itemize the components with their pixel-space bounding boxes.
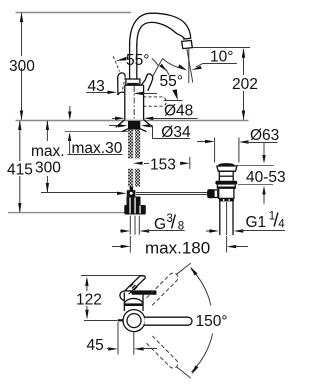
svg-text:300: 300	[35, 160, 61, 177]
svg-text:G1: G1	[246, 214, 267, 231]
drain centerline	[226, 202, 228, 235]
lever pivot bar (dark)	[132, 290, 157, 294]
base escutcheon wedges with hatch	[116, 120, 153, 132]
svg-text:max.: max.	[31, 143, 65, 160]
svg-text:4: 4	[278, 219, 285, 231]
svg-text:Ø48: Ø48	[164, 103, 193, 120]
supply tails	[130, 216, 139, 235]
svg-text:202: 202	[232, 76, 258, 93]
pop-up rod extension line with leader arrow	[41, 192, 127, 195]
svg-text:415: 415	[7, 162, 33, 179]
bottom reference line (hose end level)	[8, 212, 125, 214]
svg-text:Ø63: Ø63	[250, 127, 279, 144]
neck	[218, 171, 220, 181]
dashed lever capsule (down position)	[143, 97, 166, 106]
lever axis extension line	[153, 58, 163, 76]
svg-text:55°: 55°	[126, 52, 149, 69]
top reference line (spout top level)	[16, 12, 132, 14]
threaded shank upper section	[128, 121, 140, 159]
svg-text:40-53: 40-53	[246, 169, 286, 186]
body centerline	[133, 86, 135, 119]
pop-up rod joint at shank	[127, 187, 136, 201]
cartridge cap under lever	[126, 79, 140, 85]
svg-text:Ø34: Ø34	[161, 124, 191, 141]
dashed rotated lever position line	[113, 56, 119, 71]
angle 55° first label (lever angle)	[116, 52, 169, 75]
spout arm capsule (solid)	[145, 317, 193, 325]
svg-text:G: G	[154, 216, 166, 233]
spout riser pipe	[130, 44, 137, 80]
dimension Ø48 (body diameter)	[112, 103, 198, 121]
lever capsule left (teardrop, partly dashed)	[118, 73, 126, 95]
angle 55° second label (spout swivel)	[160, 59, 188, 101]
aerator block at spout outlet	[182, 38, 193, 48]
pop-up horizontal rod	[136, 193, 208, 195]
lower axis extension	[177, 367, 191, 378]
svg-text:max.180: max.180	[145, 239, 210, 258]
water stream vertical reference	[188, 49, 190, 83]
locknut	[219, 199, 234, 202]
faucet body	[125, 85, 144, 120]
countertop line	[16, 120, 249, 122]
lower body	[219, 188, 234, 198]
svg-text:max.30: max.30	[72, 140, 123, 157]
dimension 43 (lever front to center)	[86, 78, 157, 95]
dimension max.180	[112, 236, 248, 258]
dimension G1 1/4 (drain thread)	[206, 210, 285, 232]
base circle (plan)	[123, 310, 145, 332]
spout axis extension line	[84, 320, 118, 322]
svg-text:122: 122	[76, 292, 102, 309]
lever tip mark on spout axis	[118, 319, 124, 321]
drain assembly	[207, 163, 237, 235]
dimension 45	[87, 322, 158, 355]
svg-text:8: 8	[178, 221, 184, 233]
svg-text:153: 153	[150, 157, 176, 174]
tailpipe	[219, 201, 221, 235]
water stream 10° slanted line	[187, 49, 193, 83]
svg-text:150°: 150°	[196, 313, 228, 330]
lever capsule right (solid hook)	[141, 74, 153, 91]
dimension max.300 (rod depth)	[31, 120, 65, 193]
supply hose nuts (bottom black block)	[124, 197, 146, 215]
dimension G3/8 (supply thread)	[120, 212, 185, 233]
dimension max.30 (deck thickness)	[65, 106, 128, 157]
dimension Ø34 (hole diameter)	[109, 124, 191, 141]
svg-text:300: 300	[9, 58, 35, 75]
svg-text:10°: 10°	[210, 49, 233, 66]
dimension 300 (left, above counter)	[9, 12, 35, 120]
dimension 153 (spout reach)	[133, 157, 190, 174]
threaded shank lower section	[128, 169, 140, 187]
dimension 415 (left, below counter)	[7, 120, 33, 213]
dimension 202 (spout outlet height)	[191, 48, 258, 121]
flange rim	[217, 166, 237, 171]
angle 10° label and leader	[192, 49, 237, 71]
dashed swivel capsule lower	[146, 336, 178, 368]
dimension 122	[76, 276, 102, 319]
dimension Ø63 (drain flange)	[197, 127, 279, 163]
dimension 40-53 (basin thickness range)	[236, 143, 286, 204]
swivel arc 150°	[190, 267, 212, 375]
spout body (C-shape)	[130, 13, 191, 46]
pop-up rod knob	[207, 189, 214, 198]
svg-text:55°: 55°	[160, 73, 183, 90]
upper body under seal	[217, 185, 235, 189]
lever blade (front view)	[125, 276, 145, 294]
upper axis extension	[177, 263, 191, 274]
svg-text:/: /	[171, 212, 177, 233]
pop-up plug dome	[218, 163, 234, 165]
lever top extension line	[81, 275, 145, 277]
svg-text:45: 45	[87, 337, 104, 354]
dashed swivel capsule upper	[146, 273, 178, 305]
seal band	[215, 181, 237, 185]
faucet body (front view)	[120, 291, 143, 311]
